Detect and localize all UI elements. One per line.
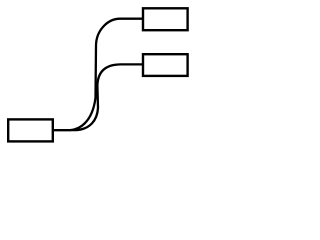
connector J1 (bottom-left box) [8, 119, 53, 141]
wire W1 (bottom-left connector to top-right connector) [53, 19, 144, 130]
connector J2 (top-right box) [143, 8, 188, 30]
wire W2 (bottom-left connector to middle-right connector) [53, 64, 144, 130]
connector J3 (middle-right box) [143, 54, 188, 76]
